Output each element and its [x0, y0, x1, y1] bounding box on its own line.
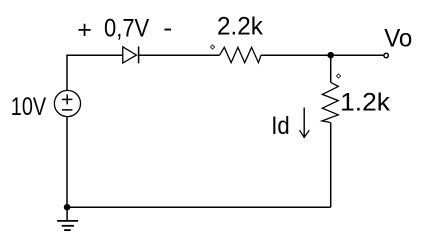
svg-text:Id: Id	[271, 112, 290, 140]
wire: source bottom to ground junction	[66, 117, 68, 207]
node marker (diamond) left of R1	[210, 45, 214, 49]
resistor R2 (1.2k) zigzag	[322, 82, 338, 122]
diode D1	[123, 46, 139, 63]
junction node at top of R2	[327, 52, 334, 59]
arrow: Id current direction (down)	[300, 108, 310, 138]
wire: R1 to Vo terminal	[261, 54, 383, 56]
wire: bottom rail	[67, 206, 331, 208]
wire: R2 bottom to bottom rail	[330, 123, 332, 208]
svg-text:0,7V: 0,7V	[104, 14, 149, 42]
svg-text:1.2k: 1.2k	[340, 89, 390, 117]
voltage source V1	[54, 90, 80, 116]
svg-text:2.2k: 2.2k	[217, 13, 263, 41]
ground	[57, 207, 78, 230]
terminal Vo (open circle)	[384, 53, 388, 57]
junction node at ground	[64, 204, 71, 211]
svg-text:-: -	[163, 14, 172, 42]
svg-text:Vo: Vo	[384, 24, 412, 52]
resistor R1 (2.2k) zigzag	[220, 47, 262, 62]
svg-text:+: +	[77, 16, 92, 44]
wire: left branch from source top to diode anode	[67, 55, 123, 90]
node marker (diamond) above R2	[336, 74, 340, 78]
wire: junction down to R2 top	[330, 55, 332, 82]
wire: diode cathode to resistor R1	[139, 54, 220, 56]
svg-text:10V: 10V	[11, 93, 47, 121]
